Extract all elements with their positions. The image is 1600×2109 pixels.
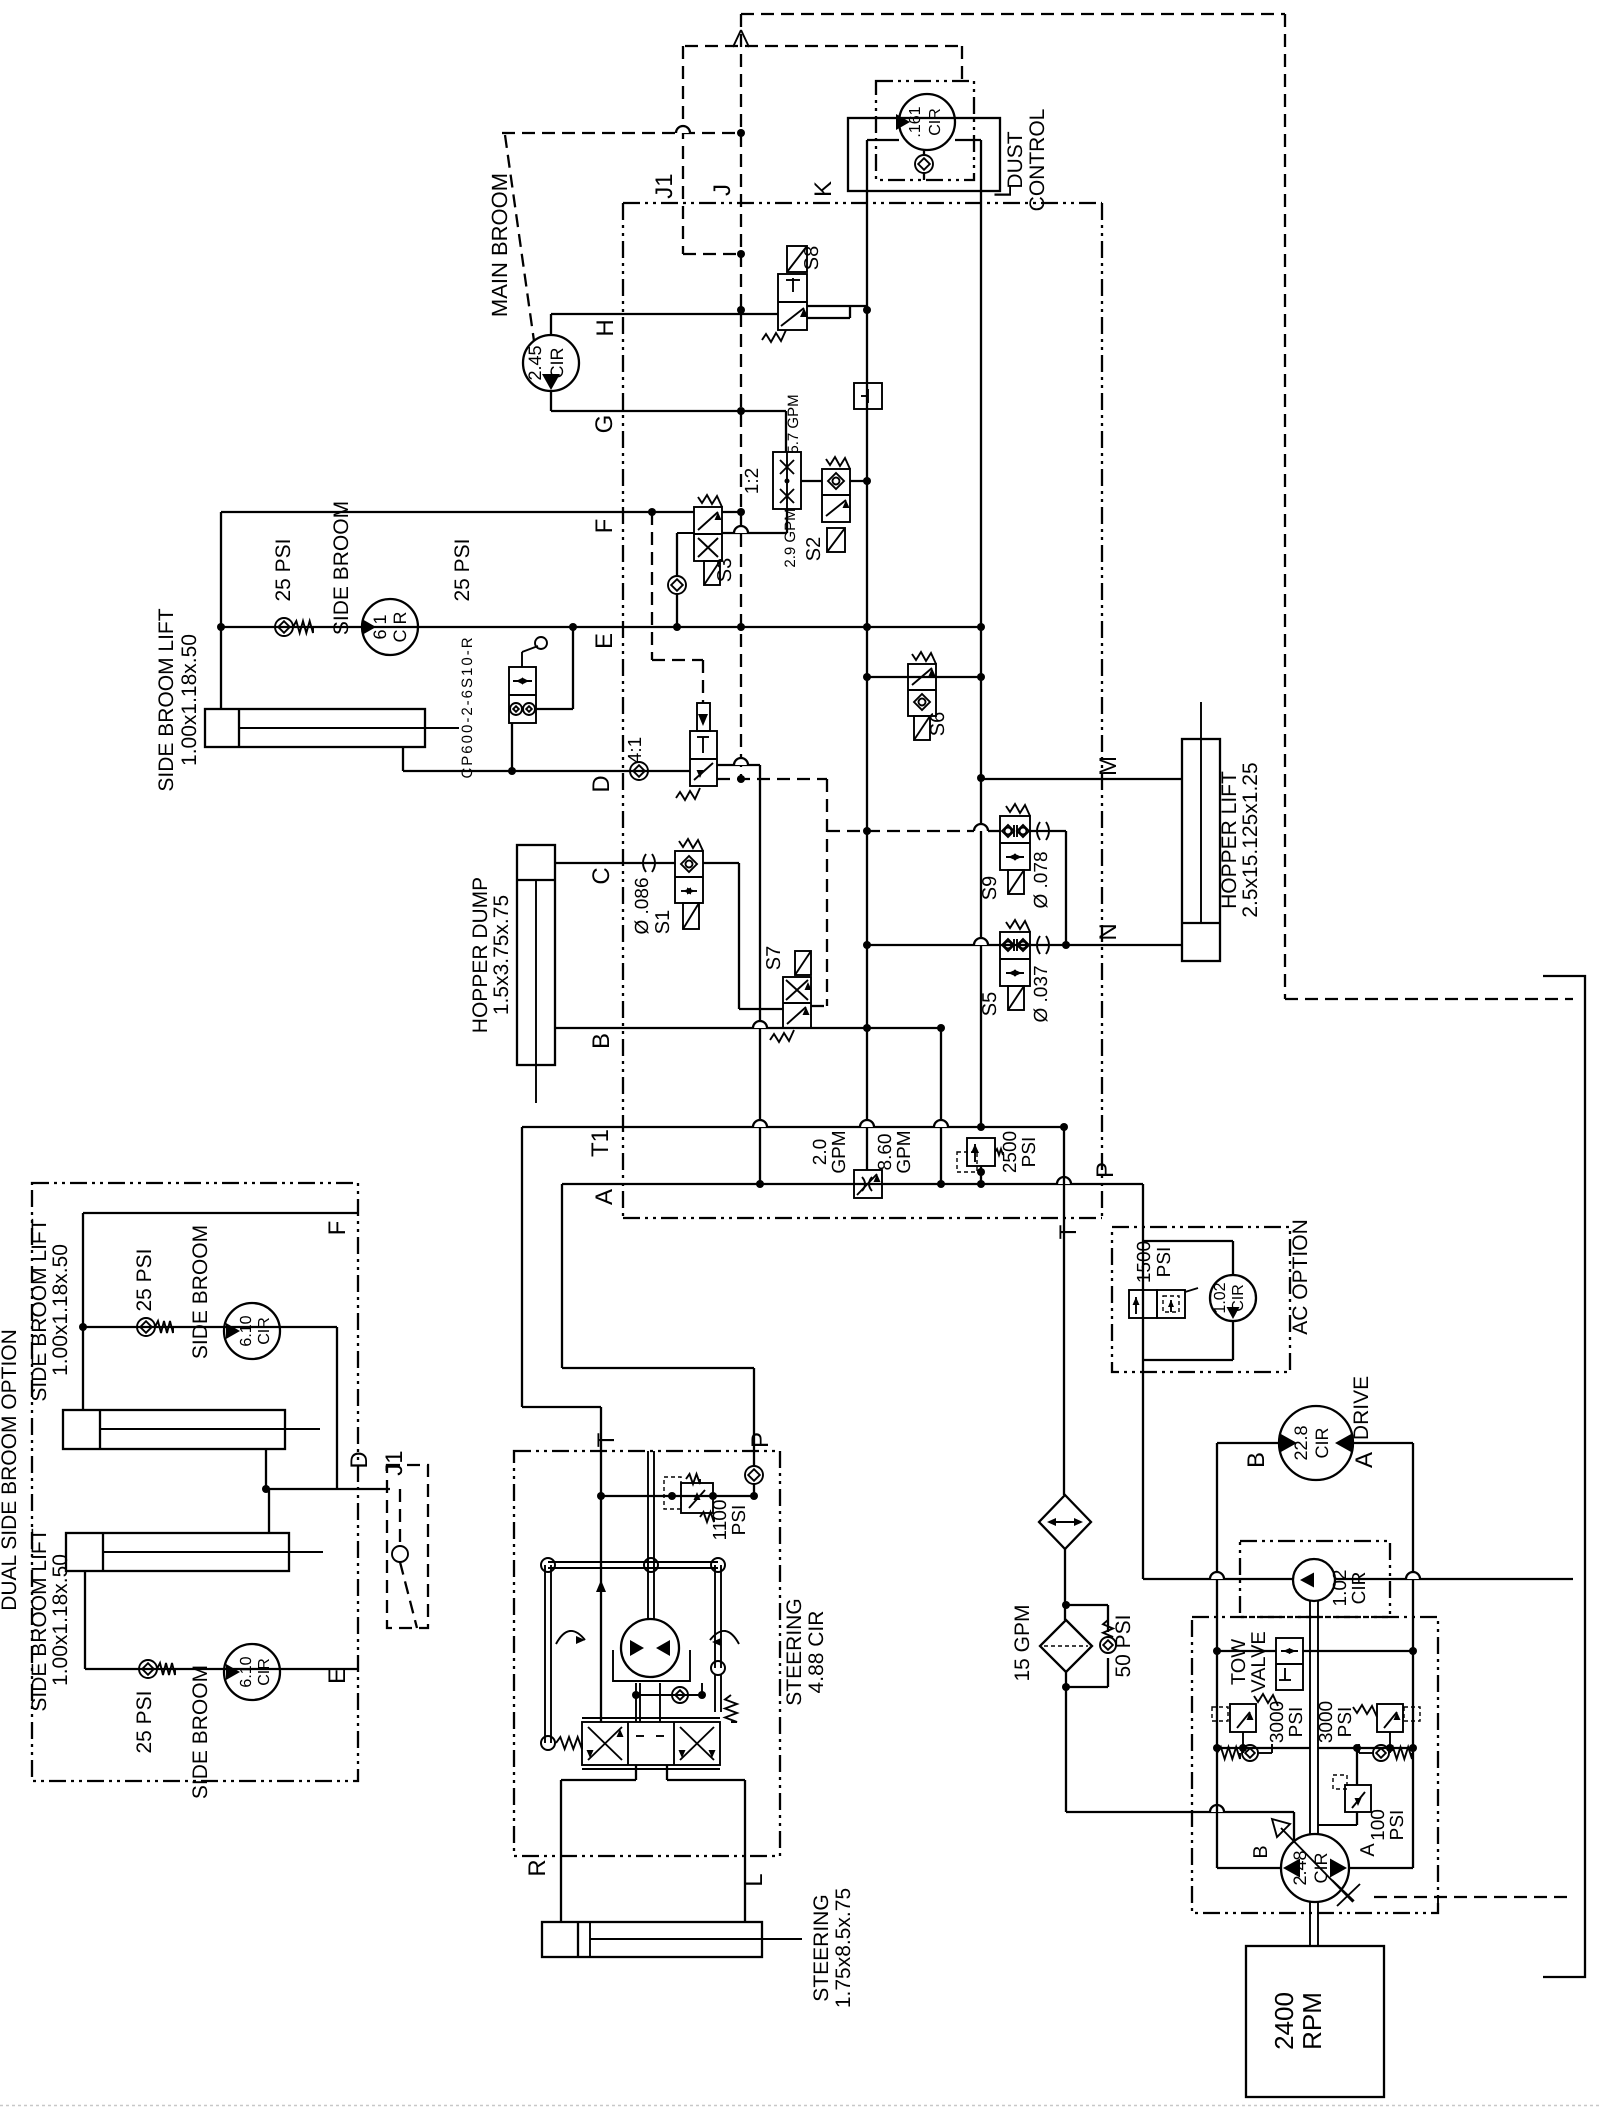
orifice S5 <box>1037 936 1040 954</box>
port test point on K line <box>854 383 882 409</box>
svg-text:3000: 3000 <box>1316 1701 1337 1743</box>
svg-text:P: P <box>1092 1162 1119 1178</box>
svg-text:25 PSI: 25 PSI <box>133 1690 156 1753</box>
svg-text:F: F <box>591 519 618 534</box>
svg-text:S1: S1 <box>652 910 674 934</box>
svg-text:R: R <box>524 1859 551 1876</box>
svg-text:T: T <box>593 1432 620 1447</box>
node F dots <box>648 508 656 516</box>
wire D line <box>403 770 690 772</box>
small dash-dot box charge pump <box>1240 1541 1390 1617</box>
svg-text:6.10: 6.10 <box>238 1315 255 1346</box>
wire right side return bracket <box>1543 976 1585 1977</box>
spring 4:1 valve <box>676 788 700 800</box>
svg-text:B: B <box>1243 1452 1270 1468</box>
svg-text:A: A <box>591 1189 618 1205</box>
svg-text:1:2: 1:2 <box>742 468 763 494</box>
drive shaft double line <box>1309 1601 1311 1834</box>
svg-text:D: D <box>588 775 615 792</box>
hand pump CP600-2-6S10-R <box>509 667 536 723</box>
steering column left link <box>544 1565 546 1743</box>
svg-text:100: 100 <box>1368 1809 1389 1841</box>
node L dots <box>977 623 985 631</box>
svg-text:PSI: PSI <box>1019 1137 1040 1168</box>
cooler diamond <box>1039 1495 1091 1549</box>
check valve S3 bypass <box>668 576 686 594</box>
svg-text:8.60: 8.60 <box>875 1134 896 1171</box>
svg-text:1500: 1500 <box>1134 1241 1155 1283</box>
svg-text:L: L <box>741 1873 768 1886</box>
wire dual cyl2 rod <box>268 1489 270 1533</box>
svg-text:K: K <box>810 181 837 197</box>
steering gerotor 4.88 CIR <box>621 1619 679 1677</box>
wire T vertical to cooler <box>1063 1127 1065 1495</box>
svg-text:25 PSI: 25 PSI <box>272 538 295 601</box>
wire dual motor1 branch <box>83 1326 337 1328</box>
wire 4:1 output solid <box>717 764 760 766</box>
svg-text:CIR: CIR <box>256 1658 273 1686</box>
steering valve spring right <box>725 1695 737 1722</box>
svg-text:5.7 GPM: 5.7 GPM <box>785 394 802 453</box>
svg-text:25 PSI: 25 PSI <box>133 1248 156 1311</box>
wire B to A vertical <box>940 1028 942 1184</box>
svg-text:TOW: TOW <box>1228 1639 1250 1685</box>
steering column rail <box>548 1561 718 1563</box>
wire filter bypass <box>1066 1604 1108 1606</box>
svg-text:2400: 2400 <box>1269 1992 1299 2050</box>
svg-text:PSI: PSI <box>1286 1707 1307 1738</box>
svg-text:S9: S9 <box>979 876 1001 900</box>
solenoid 4:1 with arrow <box>697 703 710 731</box>
dust control outer solid box <box>848 118 1000 191</box>
svg-text:CIR: CIR <box>1230 1284 1247 1312</box>
cylinder dual side broom lift 1 <box>63 1410 285 1449</box>
svg-text:P: P <box>747 1432 774 1448</box>
connector J1 dual dashed box <box>387 1465 428 1628</box>
node E-F dot <box>217 623 225 631</box>
svg-text:PSI: PSI <box>1154 1247 1175 1278</box>
check valve steering P <box>745 1466 763 1484</box>
svg-text:1.02: 1.02 <box>1330 1570 1351 1607</box>
svg-text:Ø .037: Ø .037 <box>1031 965 1052 1022</box>
svg-text:M: M <box>1095 756 1122 776</box>
wire cylinder rod end to D <box>402 747 404 771</box>
valve S7 pilot 2-way <box>783 977 811 1028</box>
steering valve spring left <box>556 1737 582 1749</box>
wire K vertical line <box>866 191 868 1170</box>
svg-text:PSI: PSI <box>1387 1810 1408 1841</box>
svg-text:D: D <box>346 1451 373 1468</box>
svg-text:Ø .086: Ø .086 <box>632 877 653 934</box>
svg-text:MAIN BROOM: MAIN BROOM <box>487 173 512 317</box>
svg-text:4.88 CIR: 4.88 CIR <box>805 1611 828 1694</box>
spring S9 <box>1006 804 1030 816</box>
wire S3 bypass <box>676 594 678 627</box>
svg-text:S2: S2 <box>803 537 825 561</box>
svg-text:E: E <box>324 1668 351 1684</box>
wire T1 line <box>522 1126 1065 1128</box>
svg-text:CIR: CIR <box>1312 1428 1332 1459</box>
svg-text:SIDE BROOM LIFT: SIDE BROOM LIFT <box>28 1218 51 1401</box>
svg-text:H: H <box>592 319 619 336</box>
node E hand pump dot <box>569 623 577 631</box>
svg-text:J1: J1 <box>381 1450 408 1475</box>
valve S2 solenoid 2-way <box>822 469 850 522</box>
svg-text:6.10: 6.10 <box>238 1656 255 1687</box>
wire 4:1 output down (V_a) <box>759 765 761 1184</box>
wire S6 line <box>867 676 981 678</box>
check valve 25 PSI side broom <box>275 618 293 636</box>
hops charge line over drive loop <box>1210 1572 1224 1579</box>
wire A line <box>562 1183 1143 1185</box>
steering dash-dot box <box>514 1451 780 1856</box>
wire steering L line <box>666 1765 668 1780</box>
steering curved arrows <box>556 1631 585 1644</box>
page edge artifact <box>0 2105 1600 2107</box>
motor AC 1.02 CIR <box>1210 1275 1256 1321</box>
svg-text:2.0: 2.0 <box>810 1139 831 1165</box>
svg-text:6.1: 6.1 <box>370 614 390 639</box>
valve TOW VALVE <box>1276 1638 1303 1690</box>
wire 2500 relief stubs <box>980 1166 982 1184</box>
orifice S9 <box>1037 822 1040 840</box>
svg-text:N: N <box>1095 923 1122 940</box>
flow divider 1:2 <box>773 452 801 509</box>
svg-text:1.00x1.18x.50: 1.00x1.18x.50 <box>49 1244 72 1376</box>
wire P down from A line <box>1142 1184 1144 1579</box>
check valve 25 PSI dual bottom <box>139 1660 157 1678</box>
wire dual cyl1 cap line <box>82 1213 84 1410</box>
steering control valve <box>582 1722 720 1765</box>
node J dots <box>737 129 745 137</box>
wire dual cyl2 cap line <box>84 1571 86 1669</box>
wire filter to pump suction <box>1065 1672 1067 1812</box>
relief valve 3000 PSI left <box>1230 1704 1256 1732</box>
wire relief rail <box>601 1495 754 1497</box>
hop 4:1 output over J <box>734 758 748 765</box>
wire F line dual <box>83 1212 358 1214</box>
relief valve 3000 PSI right <box>1377 1704 1403 1732</box>
wire relief cross lines <box>1217 1747 1310 1749</box>
wire S9 to N <box>1030 830 1066 832</box>
svg-text:22.8: 22.8 <box>1291 1425 1311 1460</box>
wire E line <box>221 626 981 628</box>
wire dashed border bottom segment <box>1285 998 1573 1000</box>
wire drive loop <box>1217 1442 1279 1444</box>
check valve dust control <box>915 155 933 173</box>
cylinder HOPPER LIFT 2.5x15.125x1.25 <box>1182 739 1220 961</box>
valve S6 solenoid 2-way <box>908 664 936 716</box>
wire P check to relief rail <box>753 1484 755 1496</box>
wire pump destroke dashed <box>1374 1896 1573 1898</box>
hop 2.9GPM line over J <box>734 526 748 533</box>
wire S2 to K <box>850 480 867 482</box>
hops T1 over verticals <box>753 1120 767 1127</box>
wire divider to S2 <box>801 480 822 482</box>
svg-text:A: A <box>1357 1843 1379 1857</box>
relief valve 1100 PSI <box>681 1483 713 1513</box>
svg-text:S5: S5 <box>979 992 1001 1016</box>
svg-text:SIDE BROOM LIFT: SIDE BROOM LIFT <box>155 608 178 791</box>
steering check and links <box>636 1694 702 1696</box>
node V_a dot on A <box>756 1180 764 1188</box>
cylinder HOPPER DUMP 1.5x3.75x.75 <box>517 845 555 1065</box>
wire S8 ports <box>807 305 867 307</box>
svg-text:CIR: CIR <box>256 1317 273 1345</box>
svg-text:1.02: 1.02 <box>1212 1282 1229 1313</box>
svg-text:DUAL SIDE BROOM OPTION: DUAL SIDE BROOM OPTION <box>0 1329 21 1611</box>
wire AC loop <box>1143 1240 1233 1242</box>
hop A over T vertical <box>1057 1177 1071 1184</box>
check valve 4:1 <box>630 762 648 780</box>
pump variable 2.48 CIR <box>1281 1834 1349 1902</box>
wire H line <box>550 314 552 335</box>
svg-text:CIR: CIR <box>547 348 567 379</box>
wire J connector dashed vertical <box>740 14 742 779</box>
svg-text:C: C <box>588 867 615 884</box>
wire tow valve connections <box>1217 1650 1276 1652</box>
valve S5 solenoid flow control <box>1000 932 1030 986</box>
wire C line <box>555 862 675 864</box>
svg-text:S6: S6 <box>927 712 949 736</box>
svg-text:CP600-2-6S10-R: CP600-2-6S10-R <box>459 635 476 778</box>
wire B line <box>555 1027 941 1029</box>
motor side broom 6.10 CIR bottom <box>224 1644 280 1700</box>
steering column right link <box>714 1565 716 1668</box>
spring S5 <box>1006 920 1030 932</box>
hop S9 pilot over L vertical <box>974 824 988 831</box>
wire 3000 left check spring <box>1217 1747 1240 1759</box>
pump variable arrow <box>1281 1828 1353 1902</box>
svg-text:S8: S8 <box>801 246 823 270</box>
wire cooler to filter <box>1064 1549 1066 1620</box>
svg-text:F: F <box>324 1221 351 1236</box>
relief valve 100 PSI <box>1345 1785 1371 1812</box>
hop N over L vertical <box>974 938 988 945</box>
node E dot at S3 branch <box>673 623 681 631</box>
wire charge pressure line <box>1143 1578 1293 1580</box>
wire dual cyl1 rod to D <box>265 1449 267 1489</box>
wire S1 to S7 <box>703 862 739 864</box>
node D dot at hand pump drain <box>508 767 516 775</box>
filter diamond 15 GPM <box>1040 1620 1092 1672</box>
spring S2 <box>826 457 850 469</box>
svg-text:1.5x3.75x.75: 1.5x3.75x.75 <box>490 895 513 1015</box>
spring S6 <box>912 652 936 664</box>
wire M line <box>981 778 1182 780</box>
svg-text:B: B <box>1250 1845 1272 1858</box>
svg-text:50 PSI: 50 PSI <box>1112 1614 1135 1677</box>
svg-text:VALVE: VALVE <box>1248 1631 1270 1693</box>
svg-text:HOPPER LIFT: HOPPER LIFT <box>1218 771 1241 909</box>
svg-text:1.00x1.18x.50: 1.00x1.18x.50 <box>49 1554 72 1686</box>
wire A to steering P <box>561 1184 563 1368</box>
valve S8 solenoid 3-way <box>778 274 807 330</box>
orifice C line <box>643 854 646 872</box>
spring S3 <box>698 495 722 507</box>
wire S9 pilot dashed <box>827 830 974 832</box>
steering gerotor frame <box>613 1650 690 1681</box>
svg-text:3000: 3000 <box>1267 1701 1288 1743</box>
svg-text:T: T <box>1055 1224 1082 1239</box>
wire dashed pilot to main broom <box>505 135 534 341</box>
spring S1 <box>679 839 703 851</box>
svg-text:1100: 1100 <box>710 1500 731 1541</box>
wire pilot dashed from F <box>651 512 653 660</box>
wire divider 2.9 GPM to S3 <box>786 509 788 533</box>
spring S7 <box>770 1030 794 1042</box>
svg-text:GPM: GPM <box>829 1130 850 1173</box>
motor side broom 6.1 CIR <box>362 599 418 655</box>
svg-text:HOPPER DUMP: HOPPER DUMP <box>469 877 492 1033</box>
wire J1 connector dashed <box>682 46 684 254</box>
svg-text:25 PSI: 25 PSI <box>451 538 474 601</box>
svg-text:2.45: 2.45 <box>525 345 545 380</box>
svg-text:T1: T1 <box>587 1129 614 1157</box>
wire 3000 right check spring <box>1373 1745 1389 1761</box>
motor drive 22.8 CIR <box>1279 1406 1353 1480</box>
hop B over V_a <box>753 1021 767 1028</box>
valve S3 solenoid 2-way <box>694 507 722 561</box>
wire F line <box>221 511 694 513</box>
AC option dash-dot box <box>1112 1227 1290 1372</box>
node K dots <box>863 306 871 314</box>
svg-text:4:1: 4:1 <box>625 737 646 763</box>
svg-text:DUST: DUST <box>1004 131 1027 188</box>
check valve 50 PSI <box>1100 1637 1116 1653</box>
svg-text:SIDE BROOM: SIDE BROOM <box>330 501 353 635</box>
svg-text:E: E <box>591 633 618 649</box>
wire dashed border right edge <box>1284 14 1286 999</box>
svg-text:STEERING: STEERING <box>783 1598 806 1705</box>
valve S9 solenoid flow control <box>1000 816 1030 870</box>
wire steering R line <box>635 1765 637 1780</box>
svg-text:2500: 2500 <box>1000 1131 1021 1173</box>
svg-text:B: B <box>588 1033 615 1049</box>
svg-text:S3: S3 <box>714 558 736 582</box>
svg-text:SIDE BROOM: SIDE BROOM <box>189 1665 212 1799</box>
relief valve 1500 PSI <box>1129 1290 1157 1318</box>
wire G line <box>550 391 552 411</box>
wire E line dual <box>85 1668 358 1670</box>
svg-text:2.9 GPM: 2.9 GPM <box>782 508 799 567</box>
svg-text:1.75x8.5x.75: 1.75x8.5x.75 <box>832 1888 855 2008</box>
svg-text:J1: J1 <box>651 173 678 198</box>
svg-text:AC OPTION: AC OPTION <box>1289 1219 1312 1335</box>
svg-text:SIDE BROOM LIFT: SIDE BROOM LIFT <box>28 1528 51 1711</box>
svg-text:G: G <box>591 415 618 434</box>
svg-text:CIR: CIR <box>1349 1572 1370 1605</box>
motor main broom 2.45 CIR <box>523 335 579 391</box>
flow control 2.0 GPM <box>854 1170 882 1198</box>
pump group dash-dot box <box>1192 1617 1438 1913</box>
wire dashed rail B to dust control <box>685 45 962 47</box>
svg-text:2.5x15.125x1.25: 2.5x15.125x1.25 <box>1239 762 1262 917</box>
wire L vertical line <box>980 191 982 1127</box>
svg-text:J: J <box>709 184 736 196</box>
relief valve 2500 PSI <box>967 1138 995 1166</box>
svg-text:L: L <box>990 184 1017 197</box>
svg-text:GPM: GPM <box>894 1130 915 1173</box>
manifold dash-dot boundary box <box>623 202 1102 204</box>
steering wheel shaft <box>647 1451 649 1619</box>
wire E branch to hand pump <box>572 627 574 709</box>
hop suction over drive loop <box>1210 1805 1224 1812</box>
dual side broom option dash-dot box <box>32 1183 358 1781</box>
wire dashed top rail A (J net) <box>741 13 1285 15</box>
pump charge 1.02 CIR <box>1293 1559 1335 1601</box>
solenoid S7 <box>795 951 811 975</box>
check valve 25 PSI dual top <box>137 1318 155 1336</box>
valve S1 solenoid 2-way <box>675 851 703 903</box>
dust control dash-dot box <box>876 81 974 180</box>
wire T1 to steering T <box>521 1127 523 1407</box>
svg-text:CIR: CIR <box>927 108 944 136</box>
cylinder SIDE BROOM LIFT 1.00x1.18x.50 <box>205 709 425 747</box>
motor side broom 6.10 CIR top <box>224 1303 280 1359</box>
connector J1 pin <box>399 1489 401 1545</box>
wire dual D line <box>266 1488 390 1490</box>
svg-text:CIR: CIR <box>390 612 410 643</box>
cylinder dual side broom lift 2 <box>66 1533 289 1571</box>
svg-text:CONTROL: CONTROL <box>1026 109 1049 212</box>
wire 4:1 pilot dashed to S7/S9 <box>717 778 827 780</box>
wire F to cylinder vertical <box>220 512 222 709</box>
motor dust control .161 CIR <box>899 94 955 150</box>
svg-text:PSI: PSI <box>729 1505 750 1536</box>
wire hand pump drain to D <box>511 723 513 771</box>
valve 4:1 pilot 2-way <box>690 731 717 786</box>
svg-text:1.00x1.18x.50: 1.00x1.18x.50 <box>178 634 201 766</box>
svg-text:STEERING: STEERING <box>810 1894 833 2001</box>
wire dust control internals <box>867 139 899 141</box>
cylinder STEERING 1.75x8.5x.75 <box>542 1922 762 1957</box>
svg-text:SIDE BROOM: SIDE BROOM <box>189 1225 212 1359</box>
svg-text:15 GPM: 15 GPM <box>1011 1604 1034 1681</box>
engine box 2400 RPM <box>1246 1946 1384 2097</box>
svg-text:A: A <box>1351 1452 1378 1468</box>
svg-text:DRIVE: DRIVE <box>1350 1376 1373 1440</box>
svg-text:PSI: PSI <box>1335 1707 1356 1738</box>
svg-text:S7: S7 <box>763 946 785 970</box>
node S9-N dot <box>1062 941 1070 949</box>
svg-text:RPM: RPM <box>1297 1992 1327 2050</box>
svg-text:Ø .078: Ø .078 <box>1031 851 1052 908</box>
wire N line <box>867 944 1182 946</box>
